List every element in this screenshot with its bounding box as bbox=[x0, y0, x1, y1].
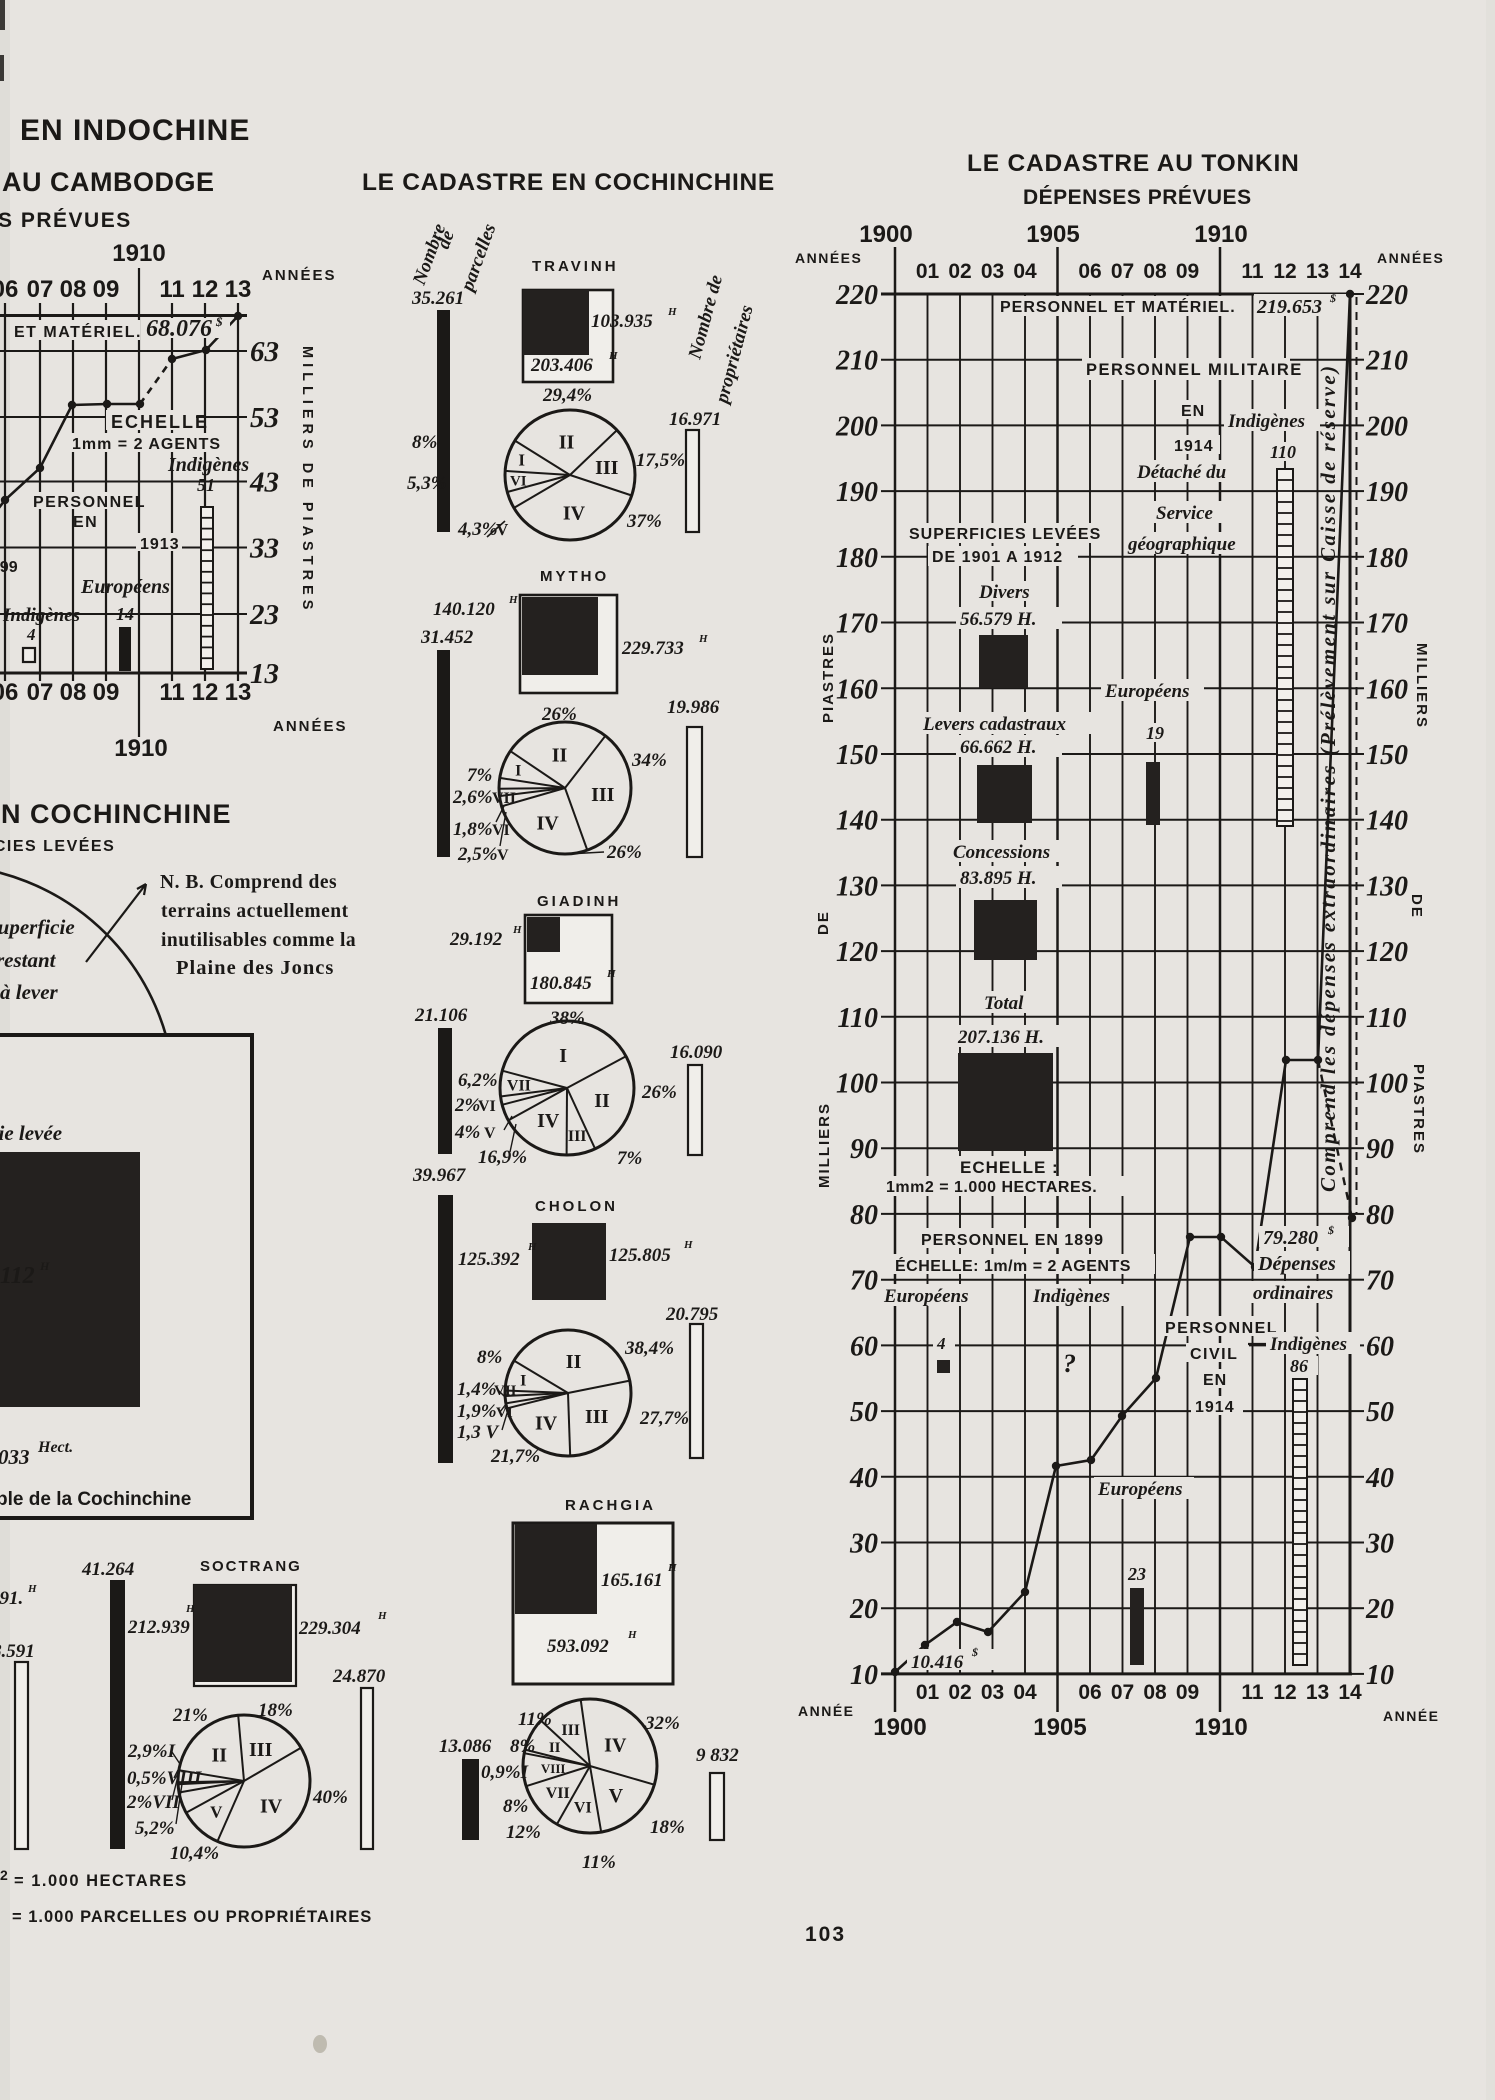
svg-text:PERSONNEL: PERSONNEL bbox=[1165, 1320, 1278, 1337]
svg-text:2,5%: 2,5% bbox=[457, 844, 498, 865]
svg-text:H: H bbox=[39, 1259, 50, 1273]
svg-text:32%: 32% bbox=[644, 1713, 680, 1734]
svg-text:IV: IV bbox=[535, 1412, 558, 1434]
svg-text:23: 23 bbox=[249, 599, 279, 631]
svg-text:14: 14 bbox=[1338, 1681, 1362, 1704]
svg-text:H: H bbox=[627, 1629, 637, 1641]
svg-text:terrains actuellement: terrains actuellement bbox=[161, 901, 349, 922]
svg-text:10: 10 bbox=[1366, 1660, 1394, 1691]
svg-text:04: 04 bbox=[1013, 260, 1037, 283]
svg-text:100: 100 bbox=[1366, 1069, 1408, 1100]
svg-text:04: 04 bbox=[1013, 1681, 1037, 1704]
svg-text:19.986: 19.986 bbox=[667, 697, 720, 718]
svg-text:ANNÉES: ANNÉES bbox=[273, 718, 348, 735]
svg-text:Superficie: Superficie bbox=[0, 915, 75, 939]
svg-text:PIASTRES: PIASTRES bbox=[1410, 1064, 1427, 1155]
svg-text:16.090: 16.090 bbox=[670, 1042, 723, 1063]
svg-text:H: H bbox=[27, 1583, 37, 1595]
svg-text:4,3%: 4,3% bbox=[457, 519, 498, 540]
svg-text:11: 11 bbox=[1241, 260, 1264, 283]
svg-text:MILLIERS: MILLIERS bbox=[1413, 643, 1430, 729]
svg-text:13.086: 13.086 bbox=[439, 1736, 492, 1757]
svg-text:Indigènes: Indigènes bbox=[167, 454, 249, 476]
svg-text:170: 170 bbox=[1366, 609, 1408, 640]
svg-text:08: 08 bbox=[60, 679, 87, 706]
svg-text:12: 12 bbox=[192, 276, 219, 303]
svg-text:EN: EN bbox=[1203, 1372, 1227, 1389]
svg-text:219.653: 219.653 bbox=[1256, 296, 1322, 318]
svg-text:TRAVINH: TRAVINH bbox=[532, 258, 619, 275]
svg-text:140: 140 bbox=[1366, 806, 1408, 837]
svg-text:MYTHO: MYTHO bbox=[540, 568, 609, 585]
svg-text:60: 60 bbox=[1366, 1331, 1394, 1362]
svg-text:III: III bbox=[595, 457, 619, 479]
svg-text:$: $ bbox=[1327, 1223, 1334, 1237]
svg-text:1,9%: 1,9% bbox=[457, 1401, 497, 1422]
svg-text:150: 150 bbox=[1366, 740, 1408, 771]
svg-text:VI: VI bbox=[492, 822, 510, 839]
svg-text:DÉPENSES PRÉVUES: DÉPENSES PRÉVUES bbox=[1023, 186, 1252, 209]
svg-text:VII: VII bbox=[492, 790, 516, 807]
svg-text:H: H bbox=[527, 1241, 537, 1253]
svg-text:31.452: 31.452 bbox=[420, 627, 474, 648]
svg-text:24.870: 24.870 bbox=[332, 1666, 386, 1687]
svg-text:03: 03 bbox=[981, 260, 1004, 283]
svg-text:Dépenses: Dépenses bbox=[1257, 1253, 1336, 1275]
svg-text:90: 90 bbox=[850, 1134, 878, 1165]
svg-text:140.120: 140.120 bbox=[433, 599, 495, 620]
svg-text:EN: EN bbox=[1181, 403, 1205, 420]
svg-text:63: 63 bbox=[250, 336, 279, 368]
svg-text:I: I bbox=[515, 763, 521, 780]
svg-text:18%: 18% bbox=[650, 1817, 685, 1838]
svg-text:IV: IV bbox=[563, 503, 586, 525]
svg-text:1,8%: 1,8% bbox=[453, 819, 493, 840]
svg-text:8%: 8% bbox=[477, 1347, 502, 1368]
svg-text:2%: 2% bbox=[454, 1095, 480, 1116]
svg-text:12: 12 bbox=[192, 679, 219, 706]
svg-text:100: 100 bbox=[836, 1069, 878, 1100]
svg-text:2,6%: 2,6% bbox=[452, 787, 493, 808]
svg-text:à lever: à lever bbox=[0, 980, 59, 1004]
svg-text:103.935: 103.935 bbox=[591, 311, 653, 332]
svg-text:203.406: 203.406 bbox=[530, 355, 593, 376]
svg-text:80: 80 bbox=[1366, 1200, 1394, 1231]
svg-text:35.261: 35.261 bbox=[411, 288, 464, 309]
svg-text:12: 12 bbox=[1273, 260, 1296, 283]
svg-text:13: 13 bbox=[225, 276, 252, 303]
svg-text:07: 07 bbox=[1111, 1681, 1134, 1704]
svg-text:II: II bbox=[566, 1351, 582, 1373]
svg-text:Détaché du: Détaché du bbox=[1136, 462, 1226, 483]
svg-text:MILLIERS: MILLIERS bbox=[816, 1102, 833, 1188]
svg-text:LE CADASTRE AU TONKIN: LE CADASTRE AU TONKIN bbox=[967, 150, 1300, 177]
svg-text:110: 110 bbox=[1270, 442, 1296, 462]
svg-text:200: 200 bbox=[835, 411, 878, 442]
svg-text:DE: DE bbox=[815, 910, 832, 935]
svg-text:?: ? bbox=[1063, 1349, 1076, 1378]
svg-text:51: 51 bbox=[197, 475, 215, 495]
svg-text:PERSONNEL EN 1899: PERSONNEL EN 1899 bbox=[921, 1232, 1104, 1249]
svg-text:02: 02 bbox=[948, 1681, 971, 1704]
svg-text:1914: 1914 bbox=[1174, 438, 1214, 455]
svg-text:229.733: 229.733 bbox=[621, 638, 684, 659]
svg-text:13: 13 bbox=[1306, 1681, 1329, 1704]
svg-text:29.192: 29.192 bbox=[449, 929, 503, 950]
svg-text:29,4%: 29,4% bbox=[542, 385, 592, 406]
svg-text:IV: IV bbox=[260, 1795, 283, 1817]
svg-text:8%: 8% bbox=[412, 432, 437, 453]
svg-text:593.092: 593.092 bbox=[547, 1636, 609, 1657]
svg-text:ET MATÉRIEL.: ET MATÉRIEL. bbox=[14, 322, 142, 341]
svg-text:40: 40 bbox=[849, 1463, 878, 1494]
svg-text:Indigènes: Indigènes bbox=[1269, 1334, 1347, 1355]
svg-text:III: III bbox=[249, 1739, 273, 1761]
svg-text:ANNÉES: ANNÉES bbox=[795, 250, 862, 266]
svg-text:1914: 1914 bbox=[1195, 1399, 1235, 1416]
svg-text:7%: 7% bbox=[617, 1148, 642, 1169]
svg-text:33: 33 bbox=[249, 533, 279, 565]
svg-text:01: 01 bbox=[916, 1681, 940, 1704]
svg-text:40: 40 bbox=[1365, 1463, 1394, 1494]
svg-text:21%: 21% bbox=[172, 1705, 208, 1726]
svg-text:03: 03 bbox=[981, 1681, 1004, 1704]
svg-text:SOCTRANG: SOCTRANG bbox=[200, 1558, 302, 1575]
svg-text:RACHGIA: RACHGIA bbox=[565, 1497, 656, 1514]
svg-text:11: 11 bbox=[159, 679, 184, 706]
svg-text:120: 120 bbox=[1366, 937, 1408, 968]
svg-text:Service: Service bbox=[1156, 503, 1214, 524]
svg-text:1913: 1913 bbox=[140, 536, 180, 553]
svg-text:07: 07 bbox=[27, 679, 54, 706]
svg-text:30: 30 bbox=[849, 1529, 878, 1560]
svg-text:39.967: 39.967 bbox=[412, 1165, 467, 1186]
svg-text:38,4%: 38,4% bbox=[624, 1338, 674, 1359]
svg-text:Divers: Divers bbox=[978, 582, 1030, 603]
svg-text:08: 08 bbox=[1143, 1681, 1167, 1704]
svg-text:EN INDOCHINE: EN INDOCHINE bbox=[20, 114, 250, 147]
svg-text:VI: VI bbox=[478, 1098, 496, 1115]
svg-text:14: 14 bbox=[1338, 260, 1362, 283]
svg-text:inutilisables comme la: inutilisables comme la bbox=[161, 930, 356, 951]
svg-text:II: II bbox=[549, 1740, 561, 1756]
svg-text:68.076: 68.076 bbox=[146, 316, 212, 342]
svg-text:103: 103 bbox=[805, 1923, 846, 1946]
svg-text:70: 70 bbox=[1366, 1266, 1394, 1297]
svg-text:H: H bbox=[512, 924, 522, 936]
svg-text:210: 210 bbox=[835, 346, 878, 377]
svg-text:1905: 1905 bbox=[1033, 1714, 1086, 1741]
svg-text:170: 170 bbox=[836, 609, 878, 640]
svg-text:16,9%: 16,9% bbox=[478, 1147, 527, 1168]
svg-text:II: II bbox=[559, 432, 575, 454]
svg-text:Européens: Européens bbox=[883, 1286, 968, 1307]
svg-text:Indigènes: Indigènes bbox=[1032, 1286, 1110, 1307]
svg-text:180.845: 180.845 bbox=[530, 973, 592, 994]
svg-text:02: 02 bbox=[948, 260, 971, 283]
svg-text:16.971: 16.971 bbox=[669, 409, 721, 430]
svg-text:VIII: VIII bbox=[541, 1761, 566, 1776]
svg-text:130: 130 bbox=[836, 871, 878, 902]
svg-text:VI: VI bbox=[574, 1800, 592, 1817]
svg-text:PERSONNEL MILITAIRE: PERSONNEL MILITAIRE bbox=[1086, 361, 1303, 379]
svg-text:restant: restant bbox=[0, 948, 57, 972]
svg-text:Européens: Européens bbox=[1104, 681, 1189, 702]
svg-text:17,5%: 17,5% bbox=[636, 450, 685, 471]
svg-text:60: 60 bbox=[850, 1331, 878, 1362]
svg-text:165.161: 165.161 bbox=[601, 1570, 663, 1591]
svg-text:11%: 11% bbox=[518, 1709, 552, 1730]
svg-text:1,3 V: 1,3 V bbox=[457, 1422, 500, 1443]
svg-text:8%: 8% bbox=[503, 1796, 528, 1817]
svg-text:13: 13 bbox=[250, 658, 279, 690]
svg-text:Indigènes: Indigènes bbox=[2, 605, 80, 626]
svg-text:ECHELLE :: ECHELLE : bbox=[960, 1158, 1059, 1177]
svg-text:14: 14 bbox=[116, 604, 134, 624]
svg-text:1910: 1910 bbox=[114, 735, 167, 762]
svg-text:125.805: 125.805 bbox=[609, 1245, 671, 1266]
svg-text:11: 11 bbox=[1241, 1681, 1264, 1704]
svg-text:34%: 34% bbox=[631, 750, 667, 771]
svg-text:200: 200 bbox=[1365, 411, 1408, 442]
svg-text:1mm2 = 1.000 HECTARES.: 1mm2 = 1.000 HECTARES. bbox=[886, 1179, 1097, 1196]
svg-text:50: 50 bbox=[1366, 1397, 1394, 1428]
svg-text:EN COCHINCHINE: EN COCHINCHINE bbox=[0, 799, 232, 829]
svg-text:H: H bbox=[698, 633, 708, 645]
svg-text:6,2%: 6,2% bbox=[458, 1070, 498, 1091]
svg-text:20: 20 bbox=[849, 1594, 878, 1625]
svg-text:41.264: 41.264 bbox=[81, 1559, 134, 1580]
svg-text:4: 4 bbox=[936, 1334, 946, 1353]
svg-text:08: 08 bbox=[60, 276, 87, 303]
svg-text:9 832: 9 832 bbox=[696, 1745, 739, 1766]
svg-text:H: H bbox=[606, 968, 616, 980]
svg-text:06: 06 bbox=[0, 679, 18, 706]
svg-text:AU CAMBODGE: AU CAMBODGE bbox=[2, 167, 215, 197]
svg-text:PERSONNEL: PERSONNEL bbox=[33, 494, 146, 511]
svg-text:180: 180 bbox=[836, 543, 878, 574]
svg-text:Total: Total bbox=[984, 993, 1024, 1014]
svg-text:40%: 40% bbox=[312, 1787, 348, 1808]
svg-text:EN: EN bbox=[73, 514, 98, 531]
svg-text:1900: 1900 bbox=[859, 221, 912, 248]
svg-text:38.112: 38.112 bbox=[0, 1263, 35, 1289]
svg-text:1mm = 2 AGENTS: 1mm = 2 AGENTS bbox=[72, 436, 221, 453]
svg-text:19: 19 bbox=[1146, 723, 1164, 743]
svg-text:SUPERFICIES LEVÉES: SUPERFICIES LEVÉES bbox=[909, 524, 1101, 543]
svg-text:20: 20 bbox=[1365, 1594, 1394, 1625]
svg-text:I: I bbox=[520, 1372, 526, 1389]
svg-text:10.416: 10.416 bbox=[911, 1652, 964, 1673]
svg-text:5,2%: 5,2% bbox=[135, 1818, 175, 1839]
svg-text:43: 43 bbox=[249, 467, 279, 499]
svg-text:27,7%: 27,7% bbox=[639, 1408, 689, 1429]
svg-text:H: H bbox=[683, 1239, 693, 1251]
svg-text:V: V bbox=[609, 1785, 624, 1807]
svg-text:CHOLON: CHOLON bbox=[535, 1198, 618, 1215]
svg-text:50: 50 bbox=[850, 1397, 878, 1428]
svg-text:$: $ bbox=[215, 314, 223, 329]
svg-text:26%: 26% bbox=[606, 842, 642, 863]
svg-text:09: 09 bbox=[1176, 1681, 1199, 1704]
svg-text:207.136 H.: 207.136 H. bbox=[957, 1027, 1044, 1048]
svg-text:III: III bbox=[585, 1406, 609, 1428]
svg-text:83.895 H.: 83.895 H. bbox=[960, 868, 1037, 889]
svg-text:PERSONNEL ET MATÉRIEL.: PERSONNEL ET MATÉRIEL. bbox=[1000, 297, 1236, 316]
svg-text:80: 80 bbox=[850, 1200, 878, 1231]
svg-text:VI: VI bbox=[510, 474, 527, 490]
svg-text:ANNÉES: ANNÉES bbox=[262, 267, 337, 284]
svg-text:212.939: 212.939 bbox=[127, 1617, 190, 1638]
svg-text:ANNÉES: ANNÉES bbox=[1377, 250, 1444, 266]
svg-text:2%VII: 2%VII bbox=[126, 1792, 180, 1813]
svg-text:II: II bbox=[552, 744, 568, 766]
svg-text:ECHELLE: ECHELLE bbox=[111, 412, 209, 432]
svg-text:21.106: 21.106 bbox=[414, 1005, 468, 1026]
svg-text:H: H bbox=[508, 594, 518, 606]
svg-text:38%: 38% bbox=[549, 1008, 585, 1029]
svg-text:07: 07 bbox=[1111, 260, 1134, 283]
svg-text:1,4%: 1,4% bbox=[457, 1379, 497, 1400]
svg-text:ordinaires: ordinaires bbox=[1253, 1283, 1333, 1304]
svg-text:IV: IV bbox=[604, 1734, 627, 1756]
svg-text:11: 11 bbox=[159, 276, 184, 303]
svg-text:IV: IV bbox=[536, 812, 559, 834]
svg-text:09: 09 bbox=[93, 276, 120, 303]
svg-text:LE CADASTRE EN COCHINCHINE: LE CADASTRE EN COCHINCHINE bbox=[362, 169, 775, 196]
svg-text:210: 210 bbox=[1365, 346, 1408, 377]
svg-text:SUPERFICIES LEVÉES: SUPERFICIES LEVÉES bbox=[0, 836, 115, 855]
svg-text:160: 160 bbox=[836, 674, 878, 705]
svg-text:140: 140 bbox=[836, 806, 878, 837]
svg-text:160: 160 bbox=[1366, 674, 1408, 705]
svg-text:120: 120 bbox=[836, 937, 878, 968]
svg-text:23: 23 bbox=[1127, 1564, 1146, 1584]
svg-text:8%: 8% bbox=[510, 1736, 535, 1757]
svg-text:III: III bbox=[591, 784, 615, 806]
svg-text:0,5%VIII: 0,5%VIII bbox=[127, 1768, 202, 1789]
svg-text:ÉCHELLE: 1m/m = 2 AGENTS: ÉCHELLE: 1m/m = 2 AGENTS bbox=[895, 1256, 1131, 1275]
svg-text:220: 220 bbox=[835, 280, 878, 311]
svg-text:10: 10 bbox=[850, 1660, 878, 1691]
svg-text:CIVIL: CIVIL bbox=[1190, 1346, 1238, 1363]
svg-text:130: 130 bbox=[1366, 871, 1408, 902]
svg-text:Plaine des Joncs: Plaine des Joncs bbox=[176, 957, 334, 979]
svg-text:06: 06 bbox=[1078, 1681, 1101, 1704]
svg-text:30: 30 bbox=[1365, 1529, 1394, 1560]
svg-text:190: 190 bbox=[836, 477, 878, 508]
svg-text:110: 110 bbox=[1366, 1003, 1406, 1034]
svg-text:06: 06 bbox=[1078, 260, 1101, 283]
svg-text:56.579 H.: 56.579 H. bbox=[960, 609, 1037, 630]
svg-text:18%: 18% bbox=[258, 1700, 293, 1721]
svg-text:VII: VII bbox=[546, 1785, 570, 1802]
svg-text:1910: 1910 bbox=[112, 240, 165, 267]
svg-text:20.795: 20.795 bbox=[665, 1304, 719, 1325]
svg-text:10,4%: 10,4% bbox=[170, 1843, 219, 1864]
svg-text:$: $ bbox=[971, 1645, 978, 1659]
svg-text:07: 07 bbox=[27, 276, 54, 303]
svg-text:PIASTRES: PIASTRES bbox=[820, 632, 837, 723]
svg-text:V: V bbox=[210, 1802, 223, 1821]
svg-text:12: 12 bbox=[1273, 1681, 1296, 1704]
svg-text:90: 90 bbox=[1366, 1134, 1394, 1165]
svg-text:V: V bbox=[484, 1125, 496, 1142]
svg-text:79.280: 79.280 bbox=[1263, 1227, 1318, 1249]
svg-text:13: 13 bbox=[1306, 260, 1329, 283]
svg-text:229.304: 229.304 bbox=[298, 1618, 361, 1639]
svg-text:21,7%: 21,7% bbox=[490, 1446, 540, 1467]
svg-text:01: 01 bbox=[916, 260, 940, 283]
svg-text:1899: 1899 bbox=[0, 559, 18, 576]
svg-text:13: 13 bbox=[225, 679, 252, 706]
svg-text:H: H bbox=[667, 306, 677, 318]
svg-text:DE 1901 A 1912: DE 1901 A 1912 bbox=[932, 549, 1063, 566]
svg-text:220: 220 bbox=[1365, 280, 1408, 311]
svg-text:VI: VI bbox=[496, 1405, 513, 1421]
svg-text:12%: 12% bbox=[506, 1822, 541, 1843]
svg-text:Indigènes: Indigènes bbox=[1227, 411, 1305, 432]
svg-text:I: I bbox=[518, 451, 525, 470]
svg-text:150: 150 bbox=[836, 740, 878, 771]
svg-text:$: $ bbox=[1329, 291, 1336, 305]
svg-text:125.392: 125.392 bbox=[458, 1249, 520, 1270]
svg-text:H: H bbox=[185, 1603, 195, 1615]
svg-text:09: 09 bbox=[93, 679, 120, 706]
svg-text:géographique: géographique bbox=[1127, 534, 1236, 555]
svg-text:DE: DE bbox=[1408, 894, 1425, 919]
svg-text:1910: 1910 bbox=[1194, 1714, 1247, 1741]
svg-text:4: 4 bbox=[26, 625, 36, 644]
svg-text:110: 110 bbox=[838, 1003, 878, 1034]
svg-text:06: 06 bbox=[0, 276, 18, 303]
svg-text:8.591: 8.591 bbox=[0, 1641, 35, 1662]
svg-text:11%: 11% bbox=[582, 1852, 616, 1873]
svg-text:7%: 7% bbox=[467, 765, 492, 786]
svg-text:180: 180 bbox=[1366, 543, 1408, 574]
svg-text:S PRÉVUES: S PRÉVUES bbox=[0, 209, 132, 232]
svg-text:53: 53 bbox=[250, 402, 279, 434]
svg-text:0,9%I: 0,9%I bbox=[481, 1762, 529, 1783]
svg-text:VII: VII bbox=[507, 1078, 531, 1095]
svg-text:1905: 1905 bbox=[1026, 221, 1079, 248]
svg-text:II: II bbox=[212, 1745, 228, 1767]
svg-text:III: III bbox=[568, 1128, 587, 1145]
svg-text:37%: 37% bbox=[626, 511, 662, 532]
svg-text:= 1.000 HECTARES: = 1.000 HECTARES bbox=[14, 1872, 188, 1890]
svg-text:08: 08 bbox=[1143, 260, 1167, 283]
svg-text:26%: 26% bbox=[641, 1082, 677, 1103]
svg-text:= 1.000 PARCELLES OU PROPRIÉTA: = 1.000 PARCELLES OU PROPRIÉTAIRES bbox=[12, 1907, 372, 1926]
svg-text:033: 033 bbox=[0, 1445, 30, 1469]
svg-text:1900: 1900 bbox=[873, 1714, 926, 1741]
svg-text:H: H bbox=[608, 350, 618, 362]
svg-text:Européens: Européens bbox=[1097, 1479, 1182, 1500]
svg-text:1910: 1910 bbox=[1194, 221, 1247, 248]
svg-text:ANNÉE: ANNÉE bbox=[1383, 1708, 1440, 1724]
svg-text:IV: IV bbox=[537, 1110, 560, 1132]
svg-text:II: II bbox=[594, 1090, 610, 1112]
svg-text:5,3%: 5,3% bbox=[407, 473, 447, 494]
svg-text:semble de la Cochinchine: semble de la Cochinchine bbox=[0, 1489, 191, 1510]
svg-text:III: III bbox=[561, 1722, 580, 1739]
svg-text:86: 86 bbox=[1290, 1356, 1308, 1376]
svg-text:70: 70 bbox=[850, 1266, 878, 1297]
svg-text:ANNÉE: ANNÉE bbox=[798, 1703, 855, 1719]
svg-text:66.662 H.: 66.662 H. bbox=[960, 737, 1037, 758]
svg-text:N. B. Comprend des: N. B. Comprend des bbox=[160, 872, 337, 893]
svg-text:Européens: Européens bbox=[80, 576, 170, 598]
